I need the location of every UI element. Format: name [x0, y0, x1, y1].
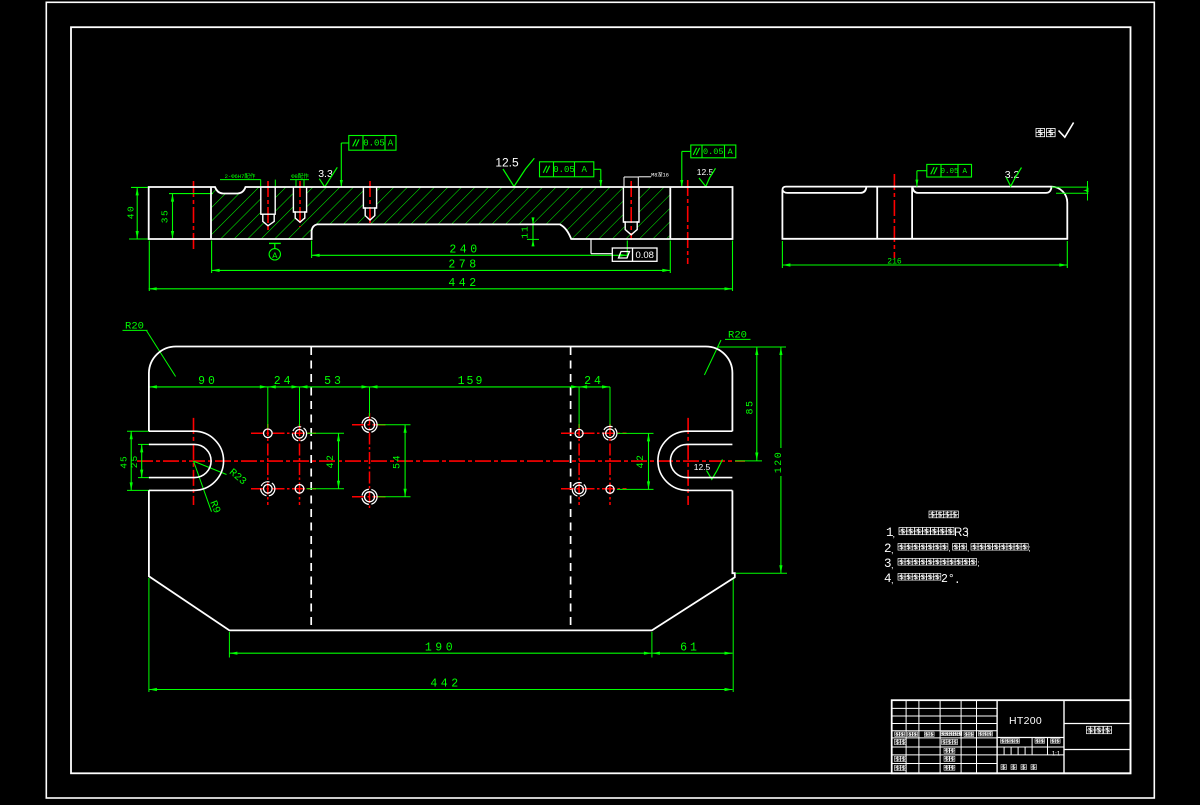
svg-text:90: 90 [198, 375, 218, 388]
svg-text:2°: 2° [941, 573, 955, 586]
svg-text:;: ; [978, 559, 980, 568]
svg-text:40: 40 [126, 205, 137, 219]
svg-text:216: 216 [887, 258, 902, 267]
svg-text:159: 159 [458, 375, 485, 388]
svg-text:24: 24 [584, 375, 604, 388]
svg-text:120: 120 [774, 451, 785, 474]
svg-text:0.05: 0.05 [553, 165, 575, 175]
svg-text:85: 85 [746, 399, 757, 414]
svg-text:,: , [893, 529, 896, 539]
svg-text:,: , [891, 560, 894, 570]
svg-text:Φ8配作: Φ8配作 [291, 172, 309, 180]
svg-text:12.5: 12.5 [694, 462, 711, 472]
svg-text:442: 442 [430, 678, 461, 691]
svg-text:HT200: HT200 [1009, 715, 1042, 727]
svg-text:0.08: 0.08 [635, 250, 654, 261]
svg-text:42: 42 [636, 453, 647, 468]
svg-text:442: 442 [448, 277, 479, 290]
svg-text:0.05: 0.05 [703, 147, 723, 157]
svg-text:,: , [967, 544, 969, 553]
svg-text:A: A [962, 168, 967, 176]
svg-text:M8深16: M8深16 [651, 171, 669, 179]
svg-text:45: 45 [119, 455, 130, 468]
svg-text:24: 24 [274, 375, 294, 388]
svg-text:0.05: 0.05 [940, 168, 959, 176]
svg-text:,: , [891, 575, 894, 585]
svg-text:190: 190 [425, 641, 456, 654]
svg-text:240: 240 [449, 243, 480, 256]
svg-text:0.05: 0.05 [363, 139, 385, 149]
svg-text:25: 25 [129, 455, 140, 468]
svg-text:,: , [949, 544, 951, 553]
svg-text:278: 278 [448, 259, 479, 272]
svg-text:1:1: 1:1 [1052, 752, 1061, 758]
svg-text:54: 54 [393, 454, 404, 469]
svg-text:.: . [954, 575, 961, 587]
svg-text:A: A [728, 147, 734, 157]
svg-text:A: A [388, 139, 394, 149]
svg-text:35: 35 [160, 209, 171, 223]
svg-text:,: , [891, 545, 894, 555]
svg-text:2-Φ6H7配作: 2-Φ6H7配作 [225, 172, 256, 180]
svg-text:;: ; [1029, 544, 1031, 553]
svg-text:53: 53 [324, 375, 344, 388]
svg-text:A: A [581, 165, 587, 175]
svg-text:42: 42 [326, 453, 337, 468]
svg-text:12.5: 12.5 [495, 156, 519, 170]
svg-text:A: A [272, 251, 278, 261]
svg-text:11: 11 [520, 225, 531, 238]
svg-text:;: ; [966, 528, 969, 538]
svg-text:61: 61 [680, 641, 700, 654]
